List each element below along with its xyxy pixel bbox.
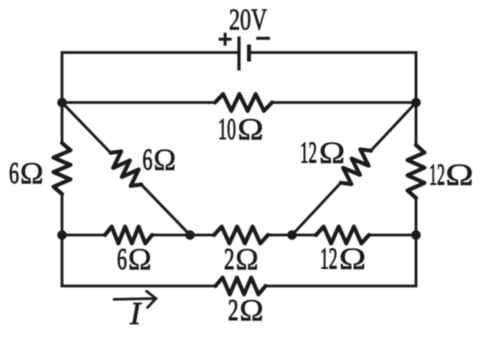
battery 20V long plate (+)	[237, 37, 240, 71]
svg-text:2: 2	[224, 241, 235, 276]
node middle junction B (right diagonal meet)	[287, 230, 297, 240]
resistor 12ohm (right rail)	[408, 145, 425, 198]
label 10ohm	[218, 111, 264, 146]
label 2ohm (middle center)	[224, 241, 259, 276]
svg-text:Ω: Ω	[128, 241, 152, 276]
wire right rail lower	[415, 198, 418, 235]
label 12ohm (right diagonal)	[300, 135, 345, 170]
svg-text:Ω: Ω	[446, 157, 474, 192]
wire second row left of 10ohm	[62, 101, 215, 104]
wire right rail upper	[415, 103, 418, 146]
resistor 12ohm (middle row right)	[316, 227, 369, 244]
svg-text:6: 6	[117, 241, 127, 276]
label 12ohm (middle right)	[320, 241, 366, 276]
node middle-right junction	[411, 230, 421, 240]
svg-text:Ω: Ω	[20, 155, 44, 190]
svg-text:20V: 20V	[229, 2, 267, 37]
battery minus sign	[256, 37, 270, 40]
svg-text:Ω: Ω	[236, 241, 259, 276]
wire left diagonal lower	[141, 185, 190, 236]
label 2ohm (bottom)	[228, 292, 264, 327]
resistor 12ohm (right diagonal)	[341, 149, 371, 184]
wire bottom-right horizontal+vertical	[266, 235, 417, 286]
node top-left junction	[57, 98, 67, 108]
wire right diagonal lower	[292, 183, 341, 235]
label 12ohm (right rail)	[429, 157, 474, 192]
svg-text:Ω: Ω	[154, 142, 177, 177]
svg-text:Ω: Ω	[238, 111, 264, 146]
node top-right junction	[411, 98, 421, 108]
svg-text:Ω: Ω	[339, 241, 366, 276]
resistor 2ohm (bottom row)	[216, 278, 266, 295]
node middle-left junction	[57, 230, 67, 240]
svg-text:12: 12	[320, 241, 338, 276]
svg-text:2: 2	[228, 292, 239, 327]
battery plus sign	[219, 33, 232, 46]
resistor 2ohm (middle row center)	[214, 227, 268, 244]
svg-text:I: I	[129, 295, 142, 331]
wire middle row seg2	[152, 234, 214, 237]
wire left rail lower	[61, 194, 64, 235]
wire middle row seg1	[62, 234, 105, 237]
wire left diagonal upper	[62, 103, 111, 153]
svg-text:6: 6	[143, 142, 153, 177]
wire left rail upper	[61, 103, 64, 144]
svg-text:Ω: Ω	[240, 292, 264, 327]
wire top-right (battery - side)	[251, 53, 417, 103]
wire middle row seg4	[369, 234, 416, 237]
wire top-left (battery + side)	[62, 53, 237, 103]
wire second row right of 10ohm	[272, 101, 416, 104]
label 6ohm (middle left)	[117, 241, 152, 276]
label 6ohm (left rail)	[9, 155, 44, 190]
wire bottom-left vertical+horizontal	[62, 235, 216, 286]
current arrow I	[114, 291, 156, 307]
svg-text:12: 12	[300, 135, 317, 170]
resistor 6ohm (left diagonal)	[111, 151, 142, 186]
resistor 6ohm (middle row left)	[105, 227, 152, 244]
svg-text:6: 6	[9, 155, 19, 190]
label 6ohm (left diagonal)	[143, 142, 177, 177]
svg-text:Ω: Ω	[319, 135, 345, 170]
wire middle row seg3	[268, 234, 316, 237]
wire right diagonal upper	[371, 103, 416, 151]
resistor 10ohm (second row)	[215, 94, 272, 111]
svg-text:10: 10	[218, 111, 236, 146]
resistor 6ohm (left rail)	[54, 143, 71, 194]
svg-text:12: 12	[429, 157, 445, 192]
node middle junction A (left diagonal meet)	[185, 230, 195, 240]
battery 20V short plate (-)	[247, 45, 251, 62]
